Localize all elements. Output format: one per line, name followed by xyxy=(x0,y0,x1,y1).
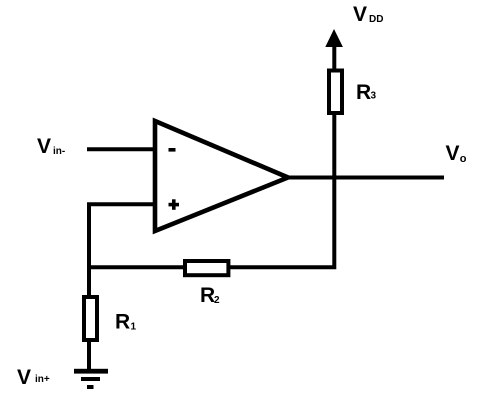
wire R1 to ground xyxy=(87,340,91,371)
svg-text:o: o xyxy=(460,153,467,165)
label Vin- xyxy=(37,135,65,158)
svg-text:V: V xyxy=(37,135,51,158)
label VDD xyxy=(353,3,383,26)
svg-text:2: 2 xyxy=(214,295,220,306)
wire output xyxy=(288,176,444,180)
label Vin+ xyxy=(17,366,50,389)
ground xyxy=(74,369,108,389)
resistor R2 xyxy=(185,261,228,307)
svg-text:1: 1 xyxy=(131,321,137,332)
svg-text:V: V xyxy=(446,142,460,165)
op-amp U1 xyxy=(155,121,288,231)
svg-text:V: V xyxy=(353,3,367,26)
svg-text:V: V xyxy=(17,366,31,389)
wire inverting input xyxy=(87,147,157,151)
wire non-inverting input xyxy=(89,204,157,295)
svg-text:3: 3 xyxy=(371,90,377,101)
svg-text:in-: in- xyxy=(53,146,65,157)
wire feedback from output node down to R2 xyxy=(230,115,334,267)
power VDD arrow xyxy=(325,29,343,70)
wire feedback to inverting node xyxy=(89,265,185,269)
svg-text:R: R xyxy=(200,284,215,307)
svg-text:R: R xyxy=(115,310,130,333)
svg-text:R: R xyxy=(356,81,371,104)
resistor R1 xyxy=(84,297,137,340)
resistor R3 xyxy=(329,71,377,114)
svg-text:in+: in+ xyxy=(35,374,50,385)
svg-text:DD: DD xyxy=(369,14,383,25)
label Vo xyxy=(446,142,467,165)
